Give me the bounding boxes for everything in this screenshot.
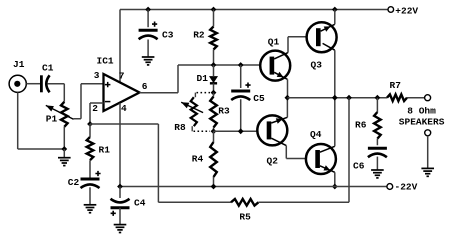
terminal speaker +: [425, 95, 431, 101]
wire Q2 collector lead: [271, 138, 286, 145]
wire bus op-out: [178, 64, 260, 66]
diode D1: [210, 77, 217, 83]
node junction R2/D1 bus: [211, 62, 217, 68]
svg-text:J1: J1: [13, 59, 25, 70]
wire C4 leads: [119, 187, 121, 225]
wire C6 to ground: [376, 157, 378, 170]
capacitor C6: [368, 147, 387, 150]
terminal speaker -: [425, 130, 431, 136]
node junction inverting: [87, 121, 93, 127]
wire P1 wiper to IC1 pin3: [74, 84, 104, 119]
wire R2 leads: [213, 10, 215, 66]
wire C1 to P1: [47, 84, 64, 102]
ground G2 under C3: [142, 56, 155, 58]
svg-text:D1: D1: [197, 73, 209, 84]
node junction R2/+22V: [211, 7, 217, 13]
wire -22V rail: [120, 186, 387, 188]
node junction Q4/-22V: [332, 184, 338, 190]
wire C2 to ground: [89, 187, 91, 205]
svg-text:C2: C2: [68, 177, 80, 188]
node junction P1/ground: [61, 146, 67, 152]
svg-text:C4: C4: [134, 198, 146, 209]
svg-text:8 Ohm: 8 Ohm: [407, 105, 436, 116]
node junction R3/R4: [211, 128, 217, 134]
svg-text:R6: R6: [355, 120, 367, 131]
wire R8 dotted links: [194, 93, 211, 132]
svg-text:R4: R4: [192, 154, 204, 165]
wire R5 right: [258, 98, 349, 203]
wire feedback riser left: [157, 124, 159, 202]
svg-text:Q2: Q2: [267, 156, 279, 167]
svg-text:R8: R8: [174, 122, 186, 133]
wire IC1 pin7 riser: [119, 10, 121, 83]
node junction feedback/output: [346, 95, 352, 101]
capacitor C5: [231, 90, 250, 93]
svg-text:3: 3: [94, 70, 100, 81]
svg-text:4: 4: [121, 103, 127, 114]
svg-text:6: 6: [142, 81, 148, 92]
svg-text:R1: R1: [99, 145, 111, 156]
wire Q1 emitter riser: [287, 79, 289, 97]
terminal -22V: [387, 184, 393, 190]
wire feedback node: [90, 123, 158, 125]
transistor Q1: [260, 51, 290, 81]
resistor R3: [210, 97, 217, 128]
transistor Q2 emitter arrow: [271, 117, 287, 123]
plus C2: [95, 171, 100, 176]
wire ground stub: [63, 149, 65, 158]
node junction Q3/+22V: [332, 7, 338, 13]
svg-text:-22V: -22V: [395, 182, 418, 193]
svg-text:7: 7: [119, 71, 125, 82]
ground G6 speaker: [421, 167, 434, 169]
node junction C4/-22V: [117, 184, 123, 190]
wire R3 leads: [213, 93, 215, 132]
transistor Q1 emitter arrow: [274, 72, 287, 79]
svg-text:P1: P1: [46, 114, 58, 125]
resistor R8 trimmer: [191, 97, 197, 126]
svg-text:SPEAKERS: SPEAKERS: [399, 116, 445, 127]
wire R7 to terminal: [407, 97, 425, 99]
op-amp minus input mark: [105, 101, 111, 103]
wire IC1 output: [140, 65, 179, 93]
capacitor C2: [81, 178, 100, 181]
wire C3 to ground: [147, 40, 149, 58]
plus C4: [111, 211, 116, 216]
wire Q2 emitter riser: [286, 98, 288, 118]
wire P1 bottom: [63, 127, 65, 149]
resistor R6: [374, 112, 381, 139]
wire IC1 pin2: [90, 103, 104, 124]
svg-text:C3: C3: [162, 30, 174, 41]
wire speaker ground stem: [427, 136, 429, 169]
svg-text:Q1: Q1: [268, 36, 280, 47]
connector J1: [9, 75, 26, 92]
transistor Q2: [257, 115, 287, 145]
wire R1 leads: [89, 124, 91, 178]
wire output bus: [287, 97, 387, 99]
svg-text:IC1: IC1: [97, 56, 114, 67]
resistor R5: [231, 199, 258, 206]
capacitor C4: [111, 206, 130, 209]
wire J1 ground leg: [18, 92, 65, 149]
svg-text:C5: C5: [253, 93, 265, 104]
ground G5 under C6: [371, 169, 384, 171]
wire J1 to C1: [26, 83, 40, 85]
wire Q3 top riser: [334, 10, 336, 25]
ground G1 input: [58, 157, 71, 159]
resistor R4: [210, 142, 217, 177]
wire R4 leads: [213, 131, 215, 186]
wire Q3 lower lead: [323, 43, 335, 50]
node junction C5 top bus: [238, 62, 244, 68]
wire Q4 upper lead: [320, 146, 335, 152]
svg-text:C1: C1: [42, 62, 54, 73]
wire D1 leads: [213, 65, 215, 93]
plus C3: [152, 22, 157, 27]
node junction C5/Q2 base: [238, 128, 244, 134]
resistor R1: [87, 137, 94, 160]
op-amp plus input mark: [105, 82, 111, 87]
svg-text:Q3: Q3: [311, 59, 323, 70]
node junction Q3Q4/output: [332, 95, 338, 101]
svg-text:C6: C6: [353, 161, 365, 172]
ground G3 under C2: [84, 204, 97, 206]
svg-text:+22V: +22V: [395, 6, 418, 17]
transistor Q4: [306, 144, 336, 174]
transistor Q3 emitter arrow: [321, 24, 335, 31]
node junction C3/+22V: [145, 7, 151, 13]
capacitor C1: [40, 75, 43, 92]
terminal +22V: [388, 7, 394, 13]
node junction output left: [285, 95, 291, 101]
ground G4 under C4: [114, 224, 127, 226]
wire R5 left: [158, 201, 231, 203]
wire IC1 pin4 riser: [119, 103, 121, 187]
svg-text:2: 2: [92, 103, 98, 114]
resistor R2: [210, 27, 217, 50]
wire C3 top: [147, 10, 149, 28]
wire Q1 collector lead: [274, 53, 288, 59]
svg-text:R7: R7: [390, 80, 402, 91]
node junction R6/output: [375, 95, 381, 101]
node junction D1/R3: [211, 90, 217, 96]
svg-text:R5: R5: [239, 211, 251, 222]
transistor Q4 emitter arrow: [320, 166, 335, 173]
wire R6 leads: [376, 98, 378, 146]
plus C5: [245, 83, 250, 88]
capacitor C3: [139, 29, 158, 32]
wire C5 leads: [240, 65, 242, 131]
svg-text:R2: R2: [193, 30, 205, 41]
svg-text:Q4: Q4: [310, 129, 322, 140]
wire Q4 bottom riser: [334, 172, 336, 186]
transistor Q3: [307, 22, 337, 52]
wire +22V rail: [120, 9, 388, 11]
node junction R4/-22V: [211, 184, 217, 190]
resistor R7: [387, 94, 407, 101]
potentiometer P1: [61, 102, 68, 127]
wire bias bus: [214, 130, 258, 132]
svg-text:R3: R3: [218, 106, 230, 117]
op-amp IC1: [104, 74, 140, 111]
